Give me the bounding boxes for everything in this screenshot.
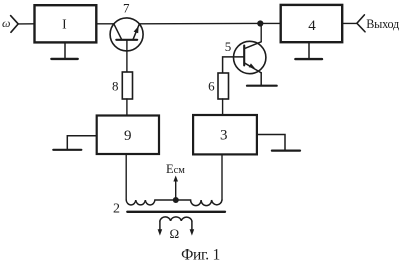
transformer secondary winding — [158, 217, 195, 236]
transistor 7 — [110, 1, 143, 51]
svg-text:3: 3 — [220, 128, 228, 144]
wire block 3 to transformer primary right — [221, 154, 223, 200]
svg-text:2: 2 — [113, 201, 120, 216]
block 1 — [35, 5, 97, 42]
svg-text:Фиг. 1: Фиг. 1 — [181, 247, 220, 264]
svg-text:8: 8 — [112, 78, 119, 93]
transformer 2 primary winding — [126, 200, 222, 206]
svg-text:Выход: Выход — [366, 17, 399, 31]
resistor 8 — [112, 72, 132, 99]
svg-text:Ω: Ω — [169, 226, 179, 241]
transistor 5 — [225, 39, 266, 74]
wire transistor 7 base to resistor 8 — [126, 40, 128, 72]
svg-text:9: 9 — [124, 128, 132, 144]
wire top bus transistor 7 to block 4 — [139, 22, 280, 24]
block 4 — [281, 5, 343, 42]
svg-text:5: 5 — [225, 39, 232, 54]
wire transistor 5 emitter to ground — [260, 73, 262, 85]
Ecm arrow — [173, 176, 178, 199]
svg-text:Есм: Есм — [166, 162, 185, 176]
output terminal chevron — [357, 15, 365, 32]
ground left of block 9 — [53, 136, 96, 150]
svg-text:4: 4 — [308, 18, 316, 34]
wire block 9 to transformer primary left — [125, 154, 127, 200]
svg-text:6: 6 — [208, 79, 215, 94]
svg-text:7: 7 — [123, 1, 130, 16]
junction dot — [257, 20, 263, 26]
input terminal chevron — [11, 16, 19, 33]
resistor 6 — [208, 73, 228, 99]
wire block 1 to transistor 7 — [96, 23, 114, 25]
ground under block 4 — [295, 42, 322, 59]
ground right of block 3 — [257, 135, 300, 151]
ground transistor 5 emitter — [247, 85, 277, 87]
block 3 — [193, 115, 257, 154]
svg-text:I: I — [62, 16, 67, 31]
wire junction to transistor 5 collector — [260, 24, 262, 42]
wire transistor 5 base to resistor 6 — [223, 57, 244, 73]
node Ecm center tap dot — [173, 197, 179, 203]
ground under block 1 — [51, 42, 77, 59]
block 9 — [97, 116, 159, 155]
wire resistor 6 to block 3 — [222, 99, 224, 115]
svg-text:ω: ω — [2, 16, 10, 30]
wire resistor 8 to block 9 — [126, 99, 128, 116]
wire input to block 1 — [18, 23, 34, 25]
transformer core — [127, 211, 225, 213]
wire block 4 to output — [342, 22, 357, 24]
